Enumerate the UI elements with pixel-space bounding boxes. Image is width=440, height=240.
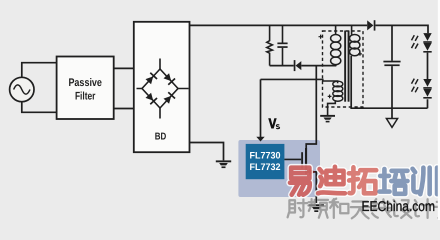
secondary polarity + bbox=[358, 52, 362, 56]
clamp diode D5 bbox=[294, 60, 296, 71]
transistor Q1 (MOSFET) bbox=[284, 158, 301, 160]
wire BD to ground bbox=[190, 143, 224, 161]
Passive Filter block bbox=[57, 57, 114, 120]
bridge stubs bbox=[137, 59, 189, 119]
op-amp U1 FL7730/FL7732 controller box bbox=[238, 140, 320, 197]
LED D7 bbox=[423, 33, 431, 41]
bridge diode D1 (top-left) bbox=[145, 73, 157, 85]
transformer core bbox=[344, 31, 346, 102]
aux polarity + bbox=[328, 95, 332, 99]
svg-text:FL7732: FL7732 bbox=[250, 162, 281, 173]
wire AC top to filter bbox=[22, 63, 57, 78]
Vs wire bbox=[260, 79, 262, 137]
output capacitor C2 bbox=[391, 25, 393, 118]
transformer T1 dashed box bbox=[323, 31, 364, 107]
primary winding bbox=[331, 34, 341, 64]
secondary winding stub bbox=[351, 25, 353, 34]
AC source V1 bbox=[10, 77, 34, 101]
LED D9 bbox=[423, 79, 431, 87]
primary winding stub bbox=[335, 25, 337, 34]
bridge diode D2 (top-right) bbox=[163, 73, 175, 85]
LED string bbox=[427, 53, 429, 109]
svg-text:Filter: Filter bbox=[75, 91, 96, 103]
DC+ rail bbox=[190, 24, 368, 26]
bridge rectifier BD block bbox=[134, 22, 190, 152]
svg-text:EEChina.com: EEChina.com bbox=[362, 199, 436, 215]
svg-text:BD: BD bbox=[155, 132, 167, 143]
wire AC bottom to filter bbox=[22, 102, 57, 113]
ground (output, open triangle) bbox=[386, 119, 397, 128]
snubber resistor R1 bbox=[267, 25, 273, 65]
snubber capacitor C1 bbox=[282, 25, 284, 65]
bridge diamond bbox=[142, 69, 178, 108]
aux winding return to ground bbox=[328, 101, 336, 115]
ground (MOSFET source) bbox=[309, 204, 324, 212]
ground (aux) bbox=[320, 115, 335, 123]
wire filter to BD bottom bbox=[114, 108, 134, 110]
secondary winding bbox=[350, 34, 360, 55]
snubber bottom wire bbox=[270, 65, 294, 67]
primary polarity + bbox=[319, 35, 323, 39]
bridge diode D4 (bottom-right) bbox=[163, 92, 175, 104]
LED D10 bbox=[423, 89, 431, 97]
svg-text:FL7730: FL7730 bbox=[250, 150, 281, 161]
WATERMARK-GRAY-ROW bbox=[288, 199, 440, 219]
bridge diode D3 (bottom-left) bbox=[145, 92, 157, 104]
wire filter to BD top bbox=[114, 67, 134, 69]
LED D8 bbox=[423, 43, 431, 51]
edge strip right bbox=[438, 0, 440, 220]
ground (BD return) bbox=[216, 160, 231, 168]
auxiliary winding bbox=[333, 81, 343, 101]
output diode D6 bbox=[367, 20, 373, 30]
drain wire node bbox=[306, 66, 316, 149]
LED light marks bbox=[412, 35, 419, 92]
secondary return wire bbox=[351, 56, 427, 108]
WATERMARK-RED-ROW bbox=[290, 167, 437, 195]
aux winding wire bbox=[261, 79, 338, 83]
svg-text:Passive: Passive bbox=[68, 77, 102, 89]
node Vs label bbox=[268, 118, 277, 128]
